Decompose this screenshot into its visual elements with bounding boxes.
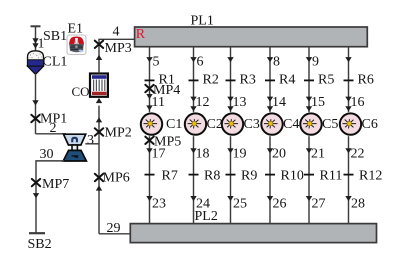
pipe PL1 <box>135 27 368 47</box>
restrictor R2 <box>189 79 199 81</box>
node 23 <box>152 196 166 211</box>
svg-text:C3: C3 <box>244 117 260 132</box>
svg-text:15: 15 <box>311 95 325 110</box>
label CO <box>72 84 90 99</box>
arrow above C2 <box>190 97 196 112</box>
label MP3 <box>105 41 132 56</box>
arrow below C5 <box>306 148 312 153</box>
restrictor R5 <box>304 79 314 81</box>
consumer C3 <box>222 113 243 134</box>
svg-text:17: 17 <box>152 146 166 161</box>
label R9 <box>241 169 257 184</box>
label C6 <box>362 117 378 132</box>
restrictor R11 <box>304 174 314 176</box>
node 19 <box>233 146 247 161</box>
wire C6 to PL2 (lower) <box>348 136 350 223</box>
arrow to SB2 <box>33 193 39 198</box>
svg-text:26: 26 <box>273 196 287 211</box>
label E1 <box>68 22 84 37</box>
wire 29 from PL2 to riser <box>99 233 130 235</box>
label MP4 <box>153 83 180 98</box>
wire 30 pump to SB2 branch <box>36 161 64 233</box>
label PL2 <box>195 209 218 224</box>
svg-text:C6: C6 <box>362 117 378 132</box>
wire riser upper (cooler to node 4) <box>99 39 135 73</box>
svg-text:R3: R3 <box>240 72 256 87</box>
node 27 <box>312 196 326 211</box>
node 9 <box>312 55 319 70</box>
label C2 <box>207 117 223 132</box>
svg-text:1: 1 <box>38 37 45 52</box>
arrow up into cooler CO <box>96 98 102 103</box>
svg-text:SB1: SB1 <box>43 29 67 44</box>
svg-text:9: 9 <box>312 55 319 70</box>
node 16 <box>351 95 365 110</box>
svg-text:25: 25 <box>233 196 247 211</box>
label R10 <box>281 169 304 184</box>
label R3 <box>240 72 256 87</box>
restrictor R1 <box>145 79 155 81</box>
label R (red, on PL1) <box>136 27 146 42</box>
cooler CO <box>90 74 108 97</box>
label CL1 <box>43 55 68 70</box>
svg-text:27: 27 <box>312 196 326 211</box>
pipe PL2 <box>130 224 376 243</box>
node 15 <box>311 95 325 110</box>
node 6 <box>197 55 204 70</box>
svg-text:13: 13 <box>233 95 247 110</box>
label R5 <box>318 72 334 87</box>
node 18 <box>196 146 210 161</box>
sink SB2 <box>29 232 45 234</box>
consumer C5 <box>300 113 321 134</box>
wire PL1 to C5 (upper) <box>306 46 312 112</box>
svg-text:29: 29 <box>107 221 121 236</box>
arrow into PL2 col 5 <box>306 196 312 201</box>
restrictor R7 <box>145 174 155 176</box>
wire PL1 to C1 (upper) <box>146 46 152 112</box>
label R6 <box>358 72 374 87</box>
arrow above C5 <box>306 97 312 112</box>
arrow up below MP6 <box>96 185 102 190</box>
engine icon E1 <box>67 35 86 55</box>
svg-text:MP3: MP3 <box>105 41 132 56</box>
svg-text:R4: R4 <box>279 72 295 87</box>
svg-text:21: 21 <box>311 146 325 161</box>
node 13 <box>233 95 247 110</box>
svg-text:C2: C2 <box>207 117 223 132</box>
node 3 <box>87 133 94 148</box>
svg-text:PL1: PL1 <box>191 14 214 29</box>
svg-text:R: R <box>136 27 146 42</box>
restrictor R3 <box>226 79 236 81</box>
valve MP5 <box>145 137 153 144</box>
consumer C4 <box>261 113 282 134</box>
restrictor R10 <box>265 174 275 176</box>
svg-text:R5: R5 <box>318 72 334 87</box>
svg-text:30: 30 <box>40 147 54 162</box>
consumer C1 <box>141 113 162 134</box>
arrow into PL2 col 4 <box>267 196 273 201</box>
svg-text:R8: R8 <box>204 169 220 184</box>
restrictor R4 <box>265 79 275 81</box>
svg-text:C5: C5 <box>322 117 338 132</box>
svg-text:R12: R12 <box>359 169 382 184</box>
wire C3 to PL2 (lower) <box>230 136 232 223</box>
valve MP6 <box>95 174 103 181</box>
svg-text:R10: R10 <box>281 169 304 184</box>
arrow below C6 <box>345 148 351 153</box>
label R8 <box>204 169 220 184</box>
svg-text:6: 6 <box>197 55 204 70</box>
label R4 <box>279 72 295 87</box>
svg-text:CL1: CL1 <box>43 55 68 70</box>
svg-text:8: 8 <box>273 55 280 70</box>
svg-text:R6: R6 <box>358 72 374 87</box>
arrow below C3 <box>227 148 233 153</box>
svg-text:CO: CO <box>72 84 90 99</box>
svg-text:3: 3 <box>87 133 94 148</box>
svg-text:19: 19 <box>233 146 247 161</box>
label R1 <box>159 72 175 87</box>
label C4 <box>283 117 299 132</box>
arrow above C4 <box>267 97 273 112</box>
svg-text:R7: R7 <box>162 169 178 184</box>
wire C1 to PL2 (lower) <box>149 136 151 223</box>
node 17 <box>152 146 166 161</box>
node 2 <box>50 121 57 136</box>
svg-text:MP7: MP7 <box>42 177 69 192</box>
svg-text:11: 11 <box>152 95 165 110</box>
node 29 <box>107 221 121 236</box>
filter CL1 <box>28 51 44 74</box>
label SB2 <box>28 237 52 252</box>
arrow above C3 <box>227 97 233 112</box>
wire CL1 to node 2 <box>32 74 38 134</box>
svg-text:MP6: MP6 <box>103 171 130 186</box>
valve MP1 <box>31 115 39 122</box>
svg-text:24: 24 <box>196 196 210 211</box>
label R7 <box>162 169 178 184</box>
node 25 <box>233 196 247 211</box>
node 4 <box>113 25 120 40</box>
label MP5 <box>154 135 181 150</box>
node 8 <box>273 55 280 70</box>
svg-text:C4: C4 <box>283 117 299 132</box>
restrictor R12 <box>344 174 354 176</box>
node 12 <box>196 95 210 110</box>
svg-text:4: 4 <box>113 25 120 40</box>
node 24 <box>196 196 210 211</box>
source SB1 <box>31 26 41 50</box>
arrow above C1 <box>146 94 152 111</box>
arrow into PL2 col 1 <box>146 196 152 201</box>
svg-text:MP2: MP2 <box>105 126 132 141</box>
arrow into PL2 col 2 <box>190 196 196 201</box>
wire PL1 to C6 (upper) <box>345 46 351 112</box>
label MP6 <box>103 171 130 186</box>
restrictor R8 <box>189 174 199 176</box>
wire pump outlet to riser <box>85 143 99 145</box>
consumer C6 <box>340 113 361 134</box>
wire C4 to PL2 (lower) <box>269 136 271 223</box>
arrow into PL2 col 6 <box>345 196 351 201</box>
label SB1 <box>43 29 67 44</box>
node 1 <box>38 37 45 52</box>
svg-text:16: 16 <box>351 95 365 110</box>
node 21 <box>311 146 325 161</box>
arrow below C1 <box>146 148 152 153</box>
node 20 <box>272 146 286 161</box>
valve MP2 <box>95 128 103 135</box>
label C1 <box>166 117 182 132</box>
label MP1 <box>40 112 67 127</box>
svg-text:28: 28 <box>351 196 365 211</box>
svg-text:C1: C1 <box>166 117 182 132</box>
svg-text:SB2: SB2 <box>28 237 52 252</box>
label R12 <box>359 169 382 184</box>
label MP7 <box>42 177 69 192</box>
svg-text:R2: R2 <box>203 72 219 87</box>
node 5 <box>153 55 160 70</box>
label C5 <box>322 117 338 132</box>
restrictor R6 <box>344 79 354 81</box>
svg-text:22: 22 <box>351 146 365 161</box>
label PL1 <box>191 14 214 29</box>
label R11 <box>320 169 343 184</box>
node 26 <box>273 196 287 211</box>
svg-text:23: 23 <box>152 196 166 211</box>
arrow below C4 <box>267 148 273 153</box>
svg-text:14: 14 <box>272 95 286 110</box>
wire node 2 to pump P1 <box>36 133 67 135</box>
arrow above C6 <box>345 97 351 112</box>
svg-text:5: 5 <box>153 55 160 70</box>
arrow up below MP3 <box>96 55 102 60</box>
node 30 <box>40 147 54 162</box>
arrow below C2 <box>190 148 196 153</box>
svg-text:R9: R9 <box>241 169 257 184</box>
node 28 <box>351 196 365 211</box>
node 11 <box>152 95 165 110</box>
valve MP4 <box>145 85 153 92</box>
wire PL1 to C2 (upper) <box>190 46 196 112</box>
svg-text:12: 12 <box>196 95 210 110</box>
svg-text:18: 18 <box>196 146 210 161</box>
node 14 <box>272 95 286 110</box>
wire C5 to PL2 (lower) <box>308 136 310 223</box>
wire PL1 to C4 (upper) <box>267 46 273 112</box>
node 22 <box>351 146 365 161</box>
wire riser lower (29 to cooler) <box>98 106 100 234</box>
svg-text:20: 20 <box>272 146 286 161</box>
label MP2 <box>105 126 132 141</box>
svg-text:E1: E1 <box>68 22 84 37</box>
wire PL1 to C3 (upper) <box>227 46 233 112</box>
pump P1 <box>63 134 86 161</box>
label C3 <box>244 117 260 132</box>
arrow into CL1 <box>32 38 38 49</box>
arrow into PL2 col 3 <box>227 196 233 201</box>
valve MP3 <box>95 41 103 48</box>
arrow up above MP2 <box>96 117 102 122</box>
wire C2 to PL2 (lower) <box>193 136 195 223</box>
valve MP7 <box>32 179 40 186</box>
label R2 <box>203 72 219 87</box>
consumer C2 <box>185 113 206 134</box>
svg-text:R11: R11 <box>320 169 343 184</box>
restrictor R9 <box>226 174 236 176</box>
